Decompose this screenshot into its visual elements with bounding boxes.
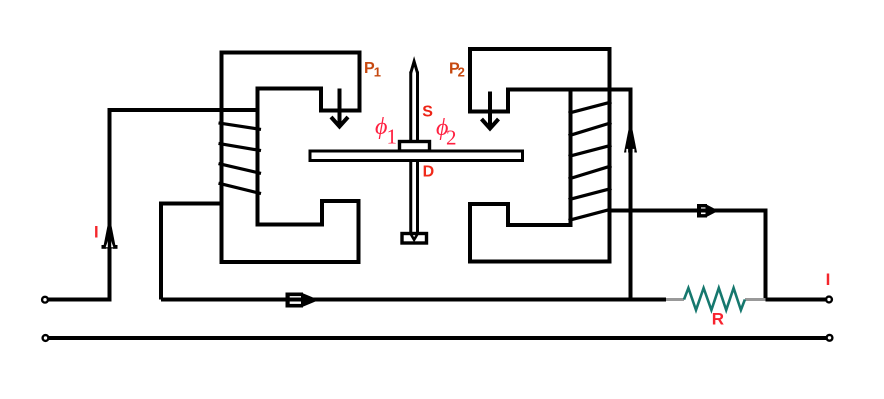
svg-text:2: 2 (458, 65, 465, 80)
svg-text:2: 2 (446, 126, 457, 150)
svg-text:I: I (94, 224, 99, 242)
svg-text:S: S (422, 103, 433, 120)
svg-text:I: I (826, 270, 831, 289)
svg-text:D: D (423, 164, 435, 181)
svg-text:1: 1 (374, 65, 381, 80)
svg-text:1: 1 (387, 125, 398, 149)
svg-text:R: R (712, 310, 724, 329)
